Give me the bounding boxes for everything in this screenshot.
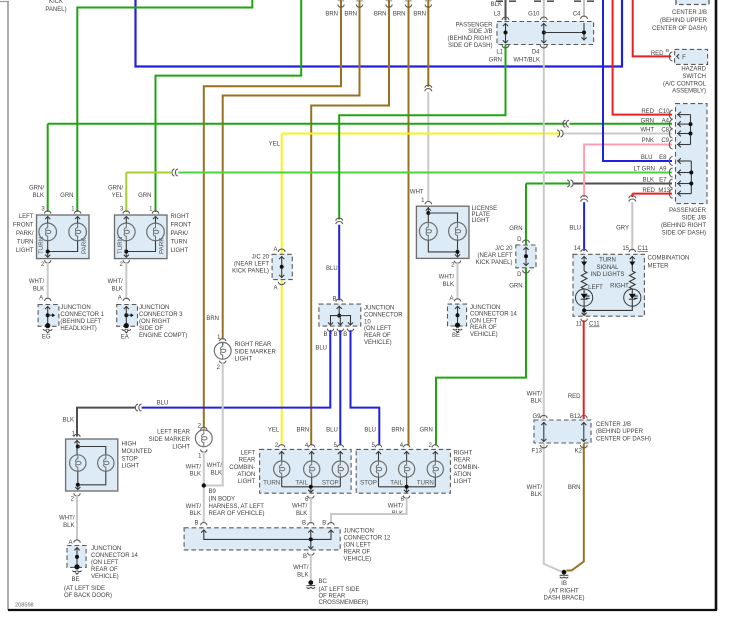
bulb TAIL bbox=[309, 445, 315, 448]
wire WHT/BLK license to JC14 bbox=[457, 262, 459, 299]
stop light internal bottom bbox=[78, 471, 106, 485]
center J/B (bottom) box bbox=[534, 420, 591, 443]
svg-text:CONNECTOR 14: CONNECTOR 14 bbox=[91, 553, 139, 559]
svg-text:HAZARD: HAZARD bbox=[681, 67, 706, 73]
svg-text:CROSSMEMBER): CROSSMEMBER) bbox=[319, 600, 369, 606]
bulb TURN bbox=[118, 223, 136, 241]
pin arcs front light bbox=[45, 211, 51, 214]
svg-text:YEL: YEL bbox=[269, 142, 281, 148]
center JB internal B12-K2 bbox=[583, 422, 585, 442]
svg-text:C4: C4 bbox=[573, 12, 581, 18]
svg-text:(BEHIND UPPER: (BEHIND UPPER bbox=[596, 429, 644, 435]
LED right ind bbox=[624, 289, 641, 306]
svg-text:B: B bbox=[333, 332, 337, 338]
svg-text:L3: L3 bbox=[494, 12, 501, 18]
right rear side marker light bbox=[220, 339, 226, 342]
svg-text:A4: A4 bbox=[662, 118, 670, 124]
wire BLU JC10 right to right rear combination STOP bbox=[351, 331, 380, 446]
svg-text:BRN: BRN bbox=[325, 12, 338, 18]
pin C10 passenger JB bbox=[669, 110, 672, 119]
svg-text:RED: RED bbox=[642, 188, 655, 194]
center JB pin arcs bbox=[540, 415, 547, 418]
bulb TURN bbox=[279, 445, 285, 448]
wire GRN to left front pin1 bbox=[77, 0, 252, 212]
svg-text:C8: C8 bbox=[661, 128, 669, 134]
svg-text:G10: G10 bbox=[528, 12, 540, 18]
svg-text:PARK/: PARK/ bbox=[16, 231, 34, 237]
pin E8 passenger JB bbox=[669, 157, 672, 166]
svg-text:BLK: BLK bbox=[190, 511, 201, 517]
wire GRN to right front pin1 bbox=[156, 0, 302, 212]
svg-text:WHT/: WHT/ bbox=[292, 504, 308, 510]
bulb TURN bbox=[432, 445, 438, 448]
svg-text:WHT: WHT bbox=[410, 190, 424, 196]
license internal wiring bbox=[427, 207, 429, 223]
svg-text:J/C 20: J/C 20 bbox=[495, 246, 513, 252]
svg-text:BLK: BLK bbox=[211, 470, 222, 476]
svg-text:WHT: WHT bbox=[640, 128, 654, 134]
svg-text:WHT/: WHT/ bbox=[207, 463, 223, 469]
svg-text:STOP: STOP bbox=[360, 479, 377, 486]
svg-text:WHT/: WHT/ bbox=[439, 275, 455, 281]
svg-text:REAR: REAR bbox=[454, 458, 471, 464]
svg-text:HEADLIGHT): HEADLIGHT) bbox=[60, 326, 96, 332]
svg-text:WHT/: WHT/ bbox=[527, 485, 543, 491]
svg-text:BLK: BLK bbox=[443, 282, 454, 288]
svg-text:B: B bbox=[323, 332, 327, 338]
svg-text:LEFT REAR: LEFT REAR bbox=[157, 430, 191, 436]
svg-text:GRN: GRN bbox=[509, 284, 522, 290]
svg-text:SIDE OF DASH): SIDE OF DASH) bbox=[662, 231, 706, 237]
svg-text:EA: EA bbox=[121, 335, 129, 341]
bulb STOP bbox=[337, 445, 343, 448]
svg-text:WHT/: WHT/ bbox=[186, 504, 202, 510]
svg-text:BRN: BRN bbox=[206, 316, 219, 322]
pins 14 15 C11 bbox=[581, 249, 587, 252]
JC12 internals bbox=[204, 530, 331, 540]
bulb TURN bbox=[39, 223, 57, 241]
meter internal left branch bbox=[583, 256, 585, 271]
svg-text:REAR OF: REAR OF bbox=[91, 567, 118, 573]
pin C9 passenger JB bbox=[669, 140, 672, 149]
svg-text:D: D bbox=[517, 237, 522, 243]
svg-text:ATION: ATION bbox=[454, 472, 472, 478]
svg-text:BE: BE bbox=[452, 333, 460, 339]
combo internal bottom bus bbox=[282, 486, 341, 488]
svg-text:CONNECTOR 12: CONNECTOR 12 bbox=[344, 535, 392, 541]
connector break on GRN A4 bbox=[563, 120, 569, 127]
wire WHT/BLK D4 down to center JB bbox=[543, 45, 545, 420]
svg-text:REAR: REAR bbox=[239, 458, 256, 464]
svg-text:(ON LEFT: (ON LEFT bbox=[364, 326, 392, 332]
svg-text:BRN: BRN bbox=[413, 12, 426, 18]
center J/B (top, cut) box bbox=[676, 0, 709, 5]
svg-text:(BEHIND UPPER: (BEHIND UPPER bbox=[660, 18, 708, 24]
svg-text:LIGHT: LIGHT bbox=[238, 479, 256, 485]
svg-text:GRN: GRN bbox=[641, 118, 654, 124]
svg-text:BLK: BLK bbox=[643, 178, 654, 184]
pin A9 passenger JB bbox=[669, 168, 672, 177]
svg-text:BLK: BLK bbox=[33, 193, 44, 199]
wire GRN/YEL to right front pin3 bbox=[126, 172, 172, 174]
svg-text:ENGINE COMPT): ENGINE COMPT) bbox=[139, 333, 187, 339]
passenger JB tall internal bottom group bbox=[690, 161, 692, 194]
wire WHT/BLK to junction connector bbox=[47, 262, 49, 299]
svg-text:F13: F13 bbox=[532, 449, 543, 455]
svg-text:GRN: GRN bbox=[60, 193, 73, 199]
svg-text:MOUNTED: MOUNTED bbox=[122, 449, 153, 455]
svg-text:LIGHT: LIGHT bbox=[122, 464, 140, 470]
svg-text:LEFT: LEFT bbox=[588, 285, 603, 291]
svg-text:PARK: PARK bbox=[159, 237, 166, 254]
svg-text:HARNESS, AT LEFT: HARNESS, AT LEFT bbox=[209, 504, 265, 510]
wire BRN 5 (to license plate, upper part) bbox=[427, 0, 429, 87]
wire GRN A4 right segment bbox=[570, 123, 673, 125]
JC10 internals bbox=[338, 306, 340, 316]
svg-text:(BEHIND RIGHT: (BEHIND RIGHT bbox=[448, 36, 493, 42]
wire YEL horizontal bbox=[282, 133, 559, 135]
J/C 20 (left, on YEL wire) bbox=[272, 254, 292, 279]
svg-text:TURN: TURN bbox=[171, 239, 188, 245]
svg-text:B: B bbox=[322, 520, 326, 526]
svg-text:GRN/: GRN/ bbox=[29, 185, 44, 191]
svg-text:BLK: BLK bbox=[296, 511, 307, 517]
svg-text:(ON LEFT: (ON LEFT bbox=[470, 318, 498, 324]
wire BRN 2 (to right rear side marker) bbox=[223, 0, 360, 340]
resistor right ind bbox=[630, 271, 636, 289]
svg-text:LIGHT: LIGHT bbox=[171, 248, 189, 254]
wire GRY to combination meter pin 15 bbox=[631, 202, 633, 251]
svg-text:BLK: BLK bbox=[63, 418, 74, 424]
svg-text:JUNCTION: JUNCTION bbox=[60, 305, 90, 311]
wire GRN/BLK to left front pin3 bbox=[47, 124, 49, 212]
wire LT GRN A9 horizontal bbox=[179, 172, 673, 174]
pin arcs passenger JB top bbox=[502, 17, 509, 20]
svg-text:TURN: TURN bbox=[38, 237, 45, 254]
svg-text:GRN: GRN bbox=[138, 193, 151, 199]
svg-text:REAR OF: REAR OF bbox=[364, 333, 391, 339]
wire PNK C9 bbox=[584, 145, 672, 198]
wire BLU E8 bbox=[603, 0, 672, 161]
svg-text:FRONT: FRONT bbox=[13, 223, 34, 229]
svg-text:(BEHIND RIGHT: (BEHIND RIGHT bbox=[661, 223, 706, 229]
left/right front park/turn light box bbox=[115, 215, 168, 259]
wire WHT/BLK left combo to JC12 bbox=[310, 497, 312, 524]
wire GRN E7 segment bbox=[526, 183, 569, 185]
svg-text:YEL: YEL bbox=[268, 428, 280, 434]
page border bottom bbox=[8, 609, 717, 611]
wire WHT to license plate light bbox=[427, 92, 429, 202]
rear combination light box bbox=[356, 449, 450, 493]
internal wiring front light bbox=[47, 217, 49, 223]
svg-text:JUNCTION: JUNCTION bbox=[470, 305, 500, 311]
svg-text:SIDE OF DASH): SIDE OF DASH) bbox=[448, 43, 492, 49]
wire YEL vertical to left rear combination TURN bbox=[281, 134, 283, 446]
svg-text:RED: RED bbox=[641, 109, 654, 115]
svg-text:A: A bbox=[273, 285, 277, 291]
svg-text:STOP: STOP bbox=[122, 456, 138, 462]
svg-text:LT GRN: LT GRN bbox=[634, 167, 655, 173]
svg-text:BLK: BLK bbox=[531, 399, 542, 405]
svg-text:KICK PANEL): KICK PANEL) bbox=[476, 260, 513, 266]
svg-text:WHT/: WHT/ bbox=[107, 279, 123, 285]
svg-text:WHT/BLK: WHT/BLK bbox=[513, 58, 540, 64]
svg-text:GRY: GRY bbox=[616, 226, 629, 232]
top edge cut marks above G10 C4 L3 bbox=[496, 0, 503, 2]
svg-text:208598: 208598 bbox=[15, 603, 34, 609]
svg-text:D4: D4 bbox=[532, 50, 540, 56]
svg-text:B12: B12 bbox=[570, 414, 581, 420]
svg-text:VEHICLE): VEHICLE) bbox=[91, 574, 119, 580]
svg-text:BLK: BLK bbox=[63, 523, 74, 529]
svg-text:B: B bbox=[302, 520, 306, 526]
wire GRN A4 horizontal bbox=[48, 123, 566, 125]
wires BLU below JC10 stubs bbox=[330, 330, 332, 334]
svg-text:BLU: BLU bbox=[326, 428, 338, 434]
wire BLU main horizontal bbox=[136, 0, 623, 67]
bulb STOP bbox=[375, 445, 381, 448]
svg-text:BLU: BLU bbox=[364, 428, 376, 434]
svg-text:OF BACK DOOR): OF BACK DOOR) bbox=[64, 593, 112, 599]
wire BLU stop light horizontal bbox=[142, 331, 331, 408]
connector break LT GRN left end bbox=[172, 169, 178, 176]
wire WHT C8 right segment bbox=[564, 133, 673, 135]
meter internal bottom bus bbox=[584, 306, 632, 310]
svg-text:VEHICLE): VEHICLE) bbox=[470, 332, 498, 338]
connector break BRN/WHT bbox=[425, 85, 432, 91]
junction connector box bbox=[38, 305, 59, 327]
svg-text:F: F bbox=[682, 55, 686, 61]
svg-text:ASSEMBLY): ASSEMBLY) bbox=[672, 89, 706, 95]
svg-text:BLU: BLU bbox=[569, 226, 581, 232]
svg-text:YEL: YEL bbox=[112, 193, 124, 199]
svg-text:GRN: GRN bbox=[489, 58, 502, 64]
svg-text:BLK: BLK bbox=[33, 287, 44, 293]
bulb TAIL bbox=[403, 445, 409, 448]
svg-text:HIGH: HIGH bbox=[122, 442, 137, 448]
J/C 20 (right, on GRN wire) bbox=[516, 245, 536, 268]
svg-text:BLU: BLU bbox=[641, 155, 653, 161]
svg-text:JUNCTION: JUNCTION bbox=[344, 528, 374, 534]
center JB internal G9-F13 bbox=[543, 422, 545, 442]
svg-text:KICK PANEL): KICK PANEL) bbox=[232, 269, 269, 275]
pin M13 passenger JB bbox=[669, 189, 672, 198]
bulb PARK bbox=[69, 223, 87, 241]
svg-text:C9: C9 bbox=[661, 138, 669, 144]
junction connector 12 box bbox=[184, 528, 340, 550]
svg-text:WHT/: WHT/ bbox=[59, 516, 75, 522]
svg-text:PARK: PARK bbox=[81, 237, 88, 254]
svg-text:DASH BRACE): DASH BRACE) bbox=[543, 595, 584, 601]
bulb license left bbox=[419, 222, 437, 240]
svg-text:A9: A9 bbox=[659, 167, 667, 173]
svg-text:A: A bbox=[273, 247, 277, 253]
wire BRN 1 (to left rear side marker) bbox=[204, 0, 341, 429]
svg-text:REAR OF VEHICLE): REAR OF VEHICLE) bbox=[209, 511, 265, 517]
svg-text:B: B bbox=[343, 332, 347, 338]
resistor left ind bbox=[581, 271, 587, 289]
svg-text:RED: RED bbox=[568, 394, 581, 400]
svg-text:CENTER J/B: CENTER J/B bbox=[672, 10, 707, 16]
junction connector box bbox=[117, 305, 138, 327]
svg-text:15: 15 bbox=[622, 246, 629, 252]
ground BC bbox=[308, 580, 313, 585]
wire WHT/BLK to junction connector bbox=[125, 262, 127, 299]
svg-text:EG: EG bbox=[42, 335, 51, 341]
wire BLK E7 right segment bbox=[574, 183, 673, 185]
svg-text:A: A bbox=[68, 540, 72, 546]
left rear side marker light bbox=[201, 427, 207, 430]
passenger side J/B (right tall) box bbox=[676, 104, 708, 204]
svg-text:TAIL: TAIL bbox=[295, 479, 308, 486]
svg-text:BLK: BLK bbox=[190, 472, 201, 478]
svg-text:GRN/: GRN/ bbox=[108, 185, 123, 191]
wire WHT/BLK JC12 to BC ground bbox=[310, 554, 312, 581]
connector break GRN/BLU bbox=[336, 218, 343, 224]
LED left ind bbox=[576, 289, 593, 306]
svg-text:LEFT: LEFT bbox=[19, 214, 34, 220]
svg-text:B: B bbox=[194, 520, 198, 526]
svg-text:C11: C11 bbox=[638, 246, 649, 252]
svg-text:LEFT: LEFT bbox=[241, 451, 256, 457]
svg-text:TURN: TURN bbox=[263, 479, 280, 486]
wire GRN down through J/C 20 to right rear combination TURN bbox=[436, 184, 526, 446]
svg-text:(ON LEFT: (ON LEFT bbox=[344, 542, 372, 548]
svg-text:REAR OF: REAR OF bbox=[470, 325, 497, 331]
svg-text:L1: L1 bbox=[496, 50, 503, 56]
svg-text:WHT/: WHT/ bbox=[186, 464, 202, 470]
pin arcs front light bbox=[123, 211, 129, 214]
connector break GRN/BLK E7 bbox=[567, 180, 573, 187]
connector break PNK/BLU bbox=[581, 196, 588, 202]
wire BRN 4 (to right rear combination TAIL) bbox=[408, 0, 410, 446]
svg-text:A: A bbox=[39, 296, 43, 302]
svg-text:BC: BC bbox=[319, 579, 328, 585]
wire GRY G10 from top bbox=[543, 0, 545, 21]
svg-text:ATION: ATION bbox=[237, 472, 255, 478]
svg-text:VEHICLE): VEHICLE) bbox=[344, 556, 372, 562]
svg-text:E8: E8 bbox=[659, 155, 667, 161]
wire BRN K2 down to IB ground bbox=[567, 444, 584, 571]
svg-text:IND LIGHTS: IND LIGHTS bbox=[591, 272, 625, 278]
pin C8 passenger JB bbox=[669, 129, 672, 138]
svg-text:COMBIN-: COMBIN- bbox=[454, 465, 480, 471]
svg-text:BRN: BRN bbox=[297, 428, 310, 434]
connector break RED/GRY bbox=[629, 196, 636, 202]
bulb stop right bbox=[98, 455, 114, 471]
svg-text:BRN: BRN bbox=[568, 485, 581, 491]
wire RED C10 bbox=[613, 0, 672, 115]
svg-text:LIGHT: LIGHT bbox=[472, 218, 490, 224]
svg-text:(A/C CONTROL: (A/C CONTROL bbox=[663, 81, 707, 87]
hazard switch box bbox=[675, 49, 708, 64]
svg-text:VEHICLE): VEHICLE) bbox=[364, 340, 392, 346]
wire BRN 3 (to left rear combination TAIL) bbox=[311, 0, 389, 446]
svg-text:BLU: BLU bbox=[326, 266, 338, 272]
license plate light box bbox=[416, 206, 469, 258]
license internal bottom bbox=[428, 240, 457, 252]
wire BLU to combination meter pin 14 bbox=[583, 202, 585, 251]
svg-text:PASSENGER: PASSENGER bbox=[456, 22, 494, 28]
svg-text:CENTER OF DASH): CENTER OF DASH) bbox=[652, 26, 707, 32]
svg-text:CENTER OF DASH): CENTER OF DASH) bbox=[596, 437, 651, 443]
wire RED to hazard switch bbox=[633, 0, 671, 56]
pin E7 passenger JB bbox=[669, 179, 672, 188]
left/right front park/turn light box bbox=[37, 215, 90, 259]
svg-text:LIGHT: LIGHT bbox=[454, 479, 472, 485]
svg-text:(ON RIGHT: (ON RIGHT bbox=[139, 319, 171, 325]
wire RED combination meter pin 11 to B12 bbox=[583, 320, 585, 419]
svg-text:(NEAR LEFT: (NEAR LEFT bbox=[234, 262, 269, 268]
svg-text:TURN: TURN bbox=[117, 237, 124, 254]
wire GRY C4 from top bbox=[583, 0, 585, 17]
svg-text:WHT/: WHT/ bbox=[388, 504, 404, 510]
svg-text:10: 10 bbox=[364, 319, 371, 325]
wire BLK L3 from top bbox=[505, 0, 507, 21]
svg-text:WHT/: WHT/ bbox=[293, 565, 309, 571]
svg-text:METER: METER bbox=[648, 264, 670, 270]
combo internal bottom bus bbox=[379, 486, 436, 488]
svg-text:(AT LEFT SIDE: (AT LEFT SIDE bbox=[64, 586, 105, 592]
svg-text:TURN: TURN bbox=[417, 479, 434, 486]
svg-text:BRN: BRN bbox=[374, 12, 387, 18]
svg-text:RIGHT: RIGHT bbox=[171, 214, 190, 220]
internal wiring front light bbox=[125, 217, 127, 223]
meter internal right branch bbox=[631, 256, 633, 271]
svg-text:TAIL: TAIL bbox=[390, 479, 403, 486]
svg-text:(AT LEFT SIDE: (AT LEFT SIDE bbox=[319, 587, 360, 593]
svg-text:BLK: BLK bbox=[531, 492, 542, 498]
svg-text:REAR OF: REAR OF bbox=[344, 549, 371, 555]
svg-text:(AT RIGHT: (AT RIGHT bbox=[549, 588, 579, 594]
svg-text:WHT/: WHT/ bbox=[29, 279, 45, 285]
svg-text:WHT/: WHT/ bbox=[527, 391, 543, 397]
bulb license right bbox=[449, 222, 467, 240]
svg-text:RIGHT: RIGHT bbox=[454, 451, 473, 457]
svg-text:COMBINATION: COMBINATION bbox=[648, 256, 690, 262]
svg-text:E7: E7 bbox=[659, 178, 667, 184]
svg-text:B9: B9 bbox=[209, 489, 217, 495]
svg-text:KICK: KICK bbox=[49, 0, 63, 5]
wire WHT/BLK left marker down to B9 bbox=[203, 451, 205, 523]
svg-text:RIGHT: RIGHT bbox=[610, 284, 629, 290]
junction connector 14 (left) box bbox=[67, 546, 86, 568]
rear combination light box bbox=[260, 449, 352, 493]
svg-text:(IN BODY: (IN BODY bbox=[209, 497, 236, 503]
junction connector 10 box bbox=[319, 304, 361, 326]
svg-text:J/C 20: J/C 20 bbox=[252, 255, 270, 261]
svg-text:C10: C10 bbox=[658, 109, 670, 115]
svg-text:B: B bbox=[303, 554, 307, 560]
svg-text:(BEHIND LEFT: (BEHIND LEFT bbox=[60, 319, 101, 325]
svg-text:D: D bbox=[517, 272, 522, 278]
passenger JB internal G10-D4 bbox=[543, 23, 545, 43]
svg-text:SIDE J/B: SIDE J/B bbox=[682, 216, 706, 222]
svg-text:14: 14 bbox=[574, 246, 581, 252]
wire WHT/BLK stop light to JC14 bbox=[76, 495, 78, 540]
wire BLU JC10 middle to left rear combination STOP bbox=[339, 331, 341, 446]
svg-text:LIGHT: LIGHT bbox=[172, 444, 190, 450]
svg-text:A: A bbox=[118, 296, 122, 302]
svg-text:M13: M13 bbox=[658, 188, 670, 194]
svg-text:JUNCTION: JUNCTION bbox=[139, 305, 169, 311]
passenger JB tall internal top group bbox=[690, 115, 692, 145]
svg-text:SIGNAL: SIGNAL bbox=[596, 265, 619, 271]
top connector stubs on BRN wires bbox=[338, 5, 344, 8]
wire BLK to high mounted stop light bbox=[77, 408, 135, 437]
svg-text:CONNECTOR 3: CONNECTOR 3 bbox=[139, 312, 183, 318]
page border top-left stub bbox=[0, 1, 9, 3]
